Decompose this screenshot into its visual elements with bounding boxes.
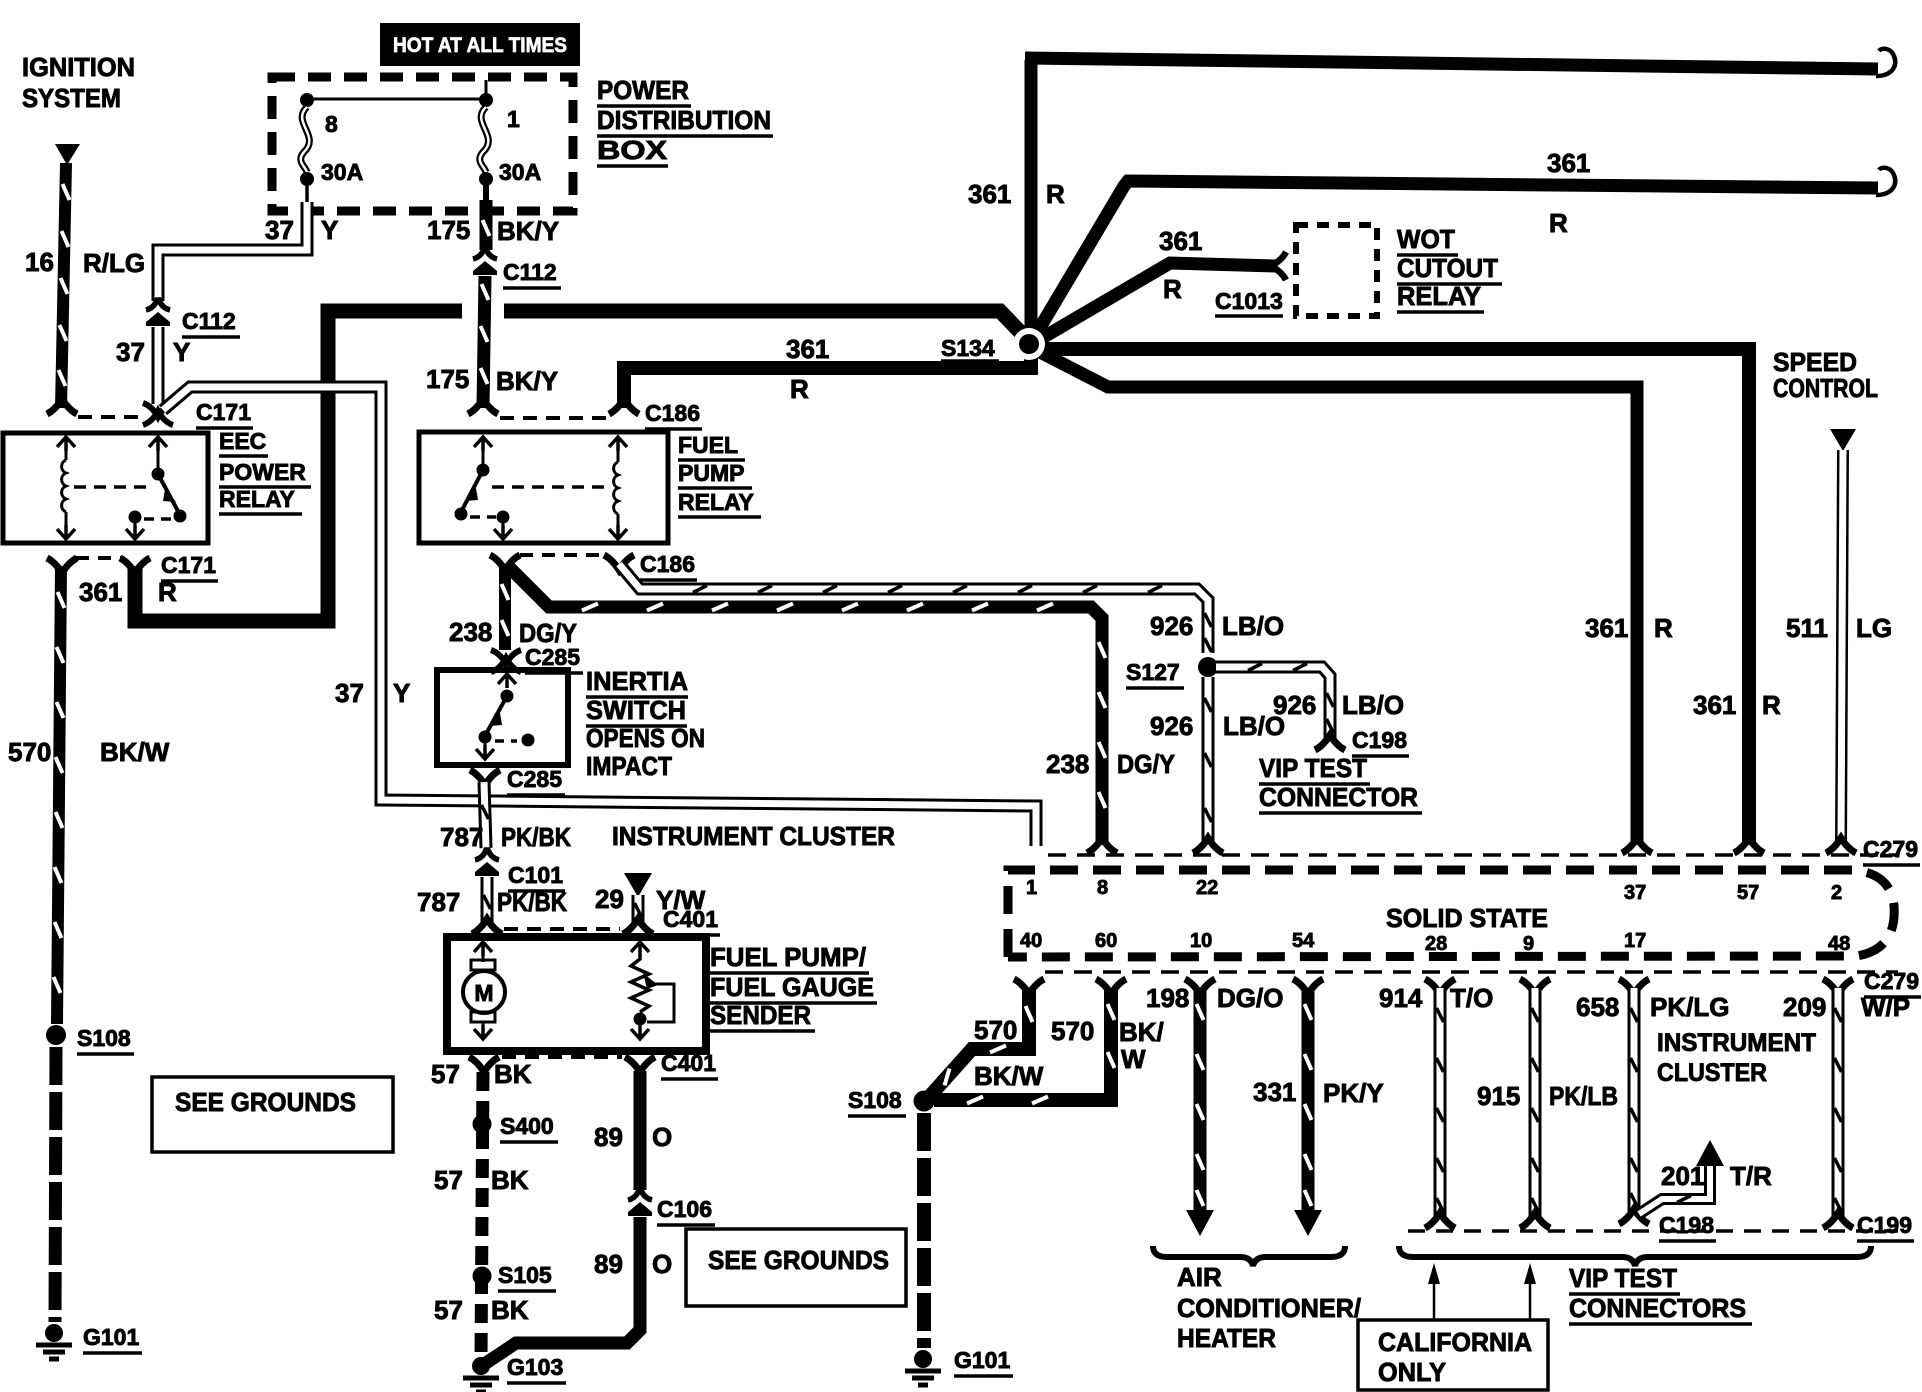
svg-text:361: 361 [1547, 148, 1590, 178]
wire 57 BK dashed to G103 [481, 1072, 483, 1358]
fuel pump / fuel gauge sender box [447, 937, 706, 1051]
svg-text:1: 1 [1026, 877, 1037, 899]
fuel pump relay switch [455, 450, 510, 529]
wire 915 PK/LB from pin 9 (hatched) [1520, 979, 1550, 1228]
label INSTRUMENT CLUSTER (bottom right) [1657, 1029, 1816, 1087]
svg-text:CLUSTER: CLUSTER [1657, 1059, 1767, 1087]
continuation hook of wire B [1876, 168, 1895, 195]
svg-text:238: 238 [449, 617, 492, 647]
connector C285 below inertia switch [470, 770, 500, 785]
svg-text:C1013: C1013 [1215, 288, 1283, 314]
wire 238 DG/Y from C186 to inertia switch (striped) [502, 564, 509, 650]
svg-text:FUEL PUMP/: FUEL PUMP/ [710, 942, 866, 972]
svg-text:RELAY: RELAY [219, 486, 295, 512]
svg-text:R: R [1163, 274, 1182, 304]
label FUEL PUMP/ FUEL GAUGE SENDER [710, 942, 877, 1031]
connector C401 bottom left flare [469, 1057, 499, 1072]
wire 209 W/P from pin 48 (hatched) [1823, 979, 1853, 1228]
SEC-A [22, 52, 146, 417]
svg-text:DG/Y: DG/Y [1117, 749, 1175, 779]
svg-text:FUEL: FUEL [678, 432, 738, 458]
svg-text:HEATER: HEATER [1177, 1323, 1276, 1353]
label INERTIA SWITCH OPENS ON IMPACT [586, 666, 705, 781]
svg-text:57: 57 [431, 1059, 460, 1089]
wire 238 DG/Y from C186 to cluster pin 8 (striped) [508, 566, 1106, 845]
svg-text:BK: BK [491, 1295, 529, 1325]
connector C401 bottom right flare [625, 1057, 655, 1072]
splice S105 [473, 1267, 492, 1286]
svg-text:S134: S134 [941, 335, 995, 361]
wire 361 R run B with diagonal from S134 [1035, 181, 1878, 336]
wire 570 BK/W (striped) from C171 to S108 [54, 566, 65, 1024]
wire 29 Y/W (hatched) [635, 895, 642, 924]
svg-text:R: R [1046, 179, 1065, 209]
SEE GROUNDS box (left) [152, 1077, 393, 1152]
svg-text:C401: C401 [661, 1050, 716, 1076]
connector row C279 top (dashed) [1048, 853, 1898, 857]
svg-text:C171: C171 [161, 552, 216, 578]
label WOT CUTOUT RELAY [1397, 224, 1502, 312]
svg-text:175: 175 [427, 215, 470, 245]
svg-text:926: 926 [1150, 711, 1193, 741]
SEC-L [1146, 979, 1914, 1390]
svg-text:201: 201 [1661, 1161, 1704, 1191]
pin 57 connector flare [1734, 838, 1764, 853]
svg-text:787: 787 [417, 887, 460, 917]
svg-text:915: 915 [1477, 1081, 1520, 1111]
EEC power relay box [3, 433, 208, 543]
pin 40 connector flare [1014, 979, 1044, 994]
svg-text:FUEL GAUGE: FUEL GAUGE [710, 972, 874, 1002]
svg-text:C112: C112 [503, 259, 557, 285]
svg-text:C279: C279 [1863, 836, 1918, 862]
svg-text:361: 361 [968, 179, 1011, 209]
label POWER DISTRIBUTION BOX [597, 75, 773, 166]
svg-text:9: 9 [1523, 933, 1534, 955]
SEC-D [3, 428, 311, 607]
power distribution box (dashed) [272, 77, 573, 211]
dashed connector line C186 top [500, 416, 606, 420]
svg-text:T/R: T/R [1730, 1161, 1772, 1191]
svg-text:DISTRIBUTION: DISTRIBUTION [597, 105, 771, 135]
wire 570 BK/W from S108 to pin 40 (striped) [929, 988, 1033, 1097]
EEC relay coil bottom pin [57, 525, 75, 539]
svg-text:C171: C171 [196, 399, 251, 425]
wire 175 BK/Y from C112 to C186 (striped) [481, 276, 489, 408]
svg-text:2: 2 [1831, 882, 1842, 904]
svg-text:AIR: AIR [1177, 1262, 1222, 1292]
wire 926 LB/O from C186 to S127 (hatched) [619, 564, 1212, 653]
SEE GROUNDS box (right) [686, 1229, 906, 1306]
svg-text:PK/BK: PK/BK [501, 822, 571, 852]
wire 201 T/R branch (hatched) [1639, 1140, 1724, 1214]
wire 331 PK/Y from pin 54 (striped) [1293, 979, 1323, 1236]
svg-text:POWER: POWER [219, 459, 306, 485]
wire 926 LB/O from S127 to pin 22 (hatched) [1205, 677, 1212, 845]
wire 89 O from C401 to C106 [634, 1071, 647, 1190]
svg-text:LB/O: LB/O [1342, 690, 1404, 720]
fuse 8 (30A) [300, 93, 314, 202]
wire 511 LG (hollow) [1841, 450, 1843, 845]
svg-text:16: 16 [25, 247, 54, 277]
connector C401 top left flare [472, 919, 502, 934]
svg-text:8: 8 [325, 111, 338, 137]
wire 361 R riser to top [1025, 60, 1038, 330]
svg-text:570: 570 [974, 1015, 1017, 1045]
svg-text:R: R [1654, 613, 1673, 643]
svg-text:C198: C198 [1352, 727, 1407, 753]
HOT AT ALL TIMES banner [380, 23, 580, 66]
svg-text:S108: S108 [77, 1025, 131, 1051]
wire 175 BK/Y from fuse 1 to C112 (striped) [483, 200, 490, 250]
svg-text:57: 57 [434, 1165, 463, 1195]
wire 787 PK/BK from C101 to C401 (hatched) [484, 877, 491, 924]
svg-text:G103: G103 [507, 1354, 563, 1380]
svg-text:CUTOUT: CUTOUT [1397, 253, 1498, 283]
svg-text:R/LG: R/LG [83, 248, 145, 278]
label EEC POWER RELAY [219, 428, 311, 514]
arrow feed 29 Y/W [624, 873, 652, 897]
svg-text:89: 89 [594, 1122, 623, 1152]
wire BK dashed from S108 to G101 (right) [917, 1113, 931, 1348]
svg-text:CONDITIONER/: CONDITIONER/ [1177, 1293, 1361, 1323]
svg-text:Y: Y [393, 678, 410, 708]
svg-text:RELAY: RELAY [678, 489, 754, 515]
wire 361 R top run A [1025, 58, 1878, 69]
SEC-E [8, 566, 393, 1359]
connector C171 below EEC box left [47, 558, 77, 573]
svg-text:C199: C199 [1857, 1212, 1912, 1238]
svg-text:O: O [652, 1122, 672, 1152]
svg-text:WOT: WOT [1397, 224, 1455, 254]
svg-text:C198: C198 [1659, 1212, 1714, 1238]
svg-text:361: 361 [1585, 613, 1628, 643]
svg-text:209: 209 [1783, 992, 1826, 1022]
svg-text:S108: S108 [848, 1087, 902, 1113]
svg-text:37: 37 [116, 337, 145, 367]
fuel pump relay coil-switch dashed link [492, 485, 608, 489]
connector C1013 flare [1271, 252, 1286, 280]
svg-text:926: 926 [1150, 611, 1193, 641]
connector C171 below EEC box right [120, 558, 150, 573]
fuel pump relay switch top pin [474, 437, 492, 451]
pin 60 connector flare [1096, 979, 1126, 994]
svg-text:89: 89 [594, 1249, 623, 1279]
svg-text:BK: BK [491, 1165, 529, 1195]
SEC-I [619, 564, 1422, 853]
connector C285 junction above inertia switch [491, 650, 521, 672]
svg-text:SYSTEM: SYSTEM [22, 83, 121, 113]
pin 2 connector flare [1826, 838, 1856, 853]
EEC relay coil [62, 450, 66, 529]
svg-text:361: 361 [79, 577, 122, 607]
wire link between fuses [307, 98, 486, 101]
connector C101 [475, 850, 499, 876]
svg-text:INSTRUMENT: INSTRUMENT [1657, 1029, 1816, 1057]
connector C186 below relay left [490, 555, 520, 570]
svg-text:914: 914 [1379, 983, 1423, 1013]
connector flare C186 coil feed [609, 399, 639, 414]
svg-text:O: O [652, 1249, 672, 1279]
connector C112 (37 Y) [146, 300, 170, 326]
svg-text:SOLID STATE: SOLID STATE [1386, 903, 1548, 933]
svg-text:DG/O: DG/O [1217, 983, 1283, 1013]
wire 658 PK/LG from pin 17 (hatched) [1619, 979, 1649, 1224]
svg-text:G101: G101 [83, 1324, 139, 1350]
wire 89 O from C106 to G103 [486, 1217, 640, 1363]
svg-text:R: R [1549, 208, 1568, 238]
svg-text:30A: 30A [499, 159, 541, 185]
svg-text:PK/LG: PK/LG [1650, 992, 1729, 1022]
svg-text:28: 28 [1425, 933, 1447, 955]
brace VIP test connectors [1399, 1246, 1871, 1266]
svg-text:S105: S105 [498, 1262, 552, 1288]
brace air conditioner/heater [1153, 1246, 1345, 1266]
fuel gauge sender [631, 942, 674, 1039]
SEC-J [431, 873, 1164, 1392]
svg-text:R: R [790, 374, 809, 404]
svg-text:C279: C279 [1864, 968, 1919, 994]
svg-text:SENDER: SENDER [710, 1000, 811, 1030]
arrow feed speed control 511 LG [1830, 429, 1856, 451]
svg-text:POWER: POWER [597, 75, 689, 105]
crossing gap where 175 BK/Y passes wire 361 R [462, 301, 504, 321]
svg-text:Y: Y [321, 215, 338, 245]
svg-text:SEE GROUNDS: SEE GROUNDS [175, 1087, 356, 1117]
svg-text:BK/Y: BK/Y [497, 216, 559, 246]
svg-text:C106: C106 [657, 1196, 712, 1222]
svg-text:PUMP: PUMP [678, 460, 744, 486]
wire 914 T/O from pin 28 (hatched) [1425, 979, 1455, 1228]
svg-text:361: 361 [1159, 226, 1202, 256]
dashed connector line C186 bottom [520, 553, 604, 557]
svg-text:658: 658 [1576, 992, 1619, 1022]
fuel pump relay switch bottom pin [494, 525, 512, 539]
pin 37 connector flare [1622, 838, 1652, 853]
svg-text:C186: C186 [640, 551, 695, 577]
svg-text:C112: C112 [182, 308, 236, 334]
svg-text:R: R [1762, 690, 1781, 720]
wire 787 PK/BK from C285 to C101 (hatched) [482, 782, 489, 848]
svg-text:17: 17 [1624, 930, 1646, 952]
ground G101 (right) [905, 1350, 941, 1385]
svg-text:RELAY: RELAY [1397, 281, 1481, 311]
wire 361 R from S134 to fuel pump relay coil [624, 350, 1031, 408]
svg-text:1: 1 [507, 106, 520, 132]
wire 37 Y from fuse 8 to C112 [158, 202, 307, 301]
continuation hook of wire A [1876, 49, 1895, 76]
connector C112 (175 BK/Y) [473, 249, 497, 275]
arrow from ignition system [55, 144, 80, 165]
svg-text:BK: BK [494, 1059, 532, 1089]
splice S400 [473, 1115, 492, 1134]
svg-text:VIP TEST: VIP TEST [1259, 753, 1367, 783]
svg-text:LB/O: LB/O [1222, 611, 1284, 641]
connector row VIP (dashed) [1408, 1229, 1898, 1233]
svg-text:CONNECTOR: CONNECTOR [1259, 782, 1418, 812]
svg-text:57: 57 [434, 1295, 463, 1325]
label AIR CONDITIONER/ HEATER [1177, 1262, 1361, 1353]
wire 16 R/LG (striped) [59, 163, 70, 408]
svg-text:OPENS ON: OPENS ON [586, 723, 705, 753]
svg-text:Y: Y [173, 337, 190, 367]
EEC relay switch [129, 450, 187, 529]
svg-text:CONTROL: CONTROL [1773, 373, 1878, 403]
svg-text:511: 511 [1786, 613, 1828, 643]
svg-text:BK/Y: BK/Y [496, 366, 558, 396]
fuel pump relay box [419, 432, 668, 543]
svg-text:331: 331 [1253, 1077, 1296, 1107]
wire 37 Y from C112 to C171 [152, 327, 165, 404]
wire 361 R from S134 to pin 37 [1036, 350, 1637, 845]
SEC-G [419, 200, 761, 580]
inertia switch box [437, 670, 568, 765]
svg-text:C101: C101 [508, 862, 563, 888]
svg-text:C186: C186 [645, 400, 700, 426]
inertia switch internals [476, 674, 535, 759]
svg-text:IGNITION: IGNITION [22, 52, 135, 82]
svg-text:S127: S127 [1126, 659, 1180, 685]
solid state module box (dashed) [1008, 870, 1894, 957]
svg-text:W: W [1121, 1044, 1146, 1074]
fuel pump relay coil top pin [609, 437, 627, 451]
connector C106 [628, 1190, 652, 1216]
svg-text:30A: 30A [321, 159, 363, 185]
svg-text:198: 198 [1146, 983, 1189, 1013]
dashed connector line C401 top [504, 927, 620, 931]
svg-text:361: 361 [786, 334, 829, 364]
svg-text:48: 48 [1828, 933, 1850, 955]
svg-text:37: 37 [265, 215, 294, 245]
svg-text:10: 10 [1190, 930, 1212, 952]
connector C401 top right flare [623, 919, 653, 934]
svg-text:361: 361 [1693, 690, 1736, 720]
svg-text:LG: LG [1856, 613, 1892, 643]
svg-text:37: 37 [1624, 882, 1646, 904]
svg-text:VIP TEST: VIP TEST [1569, 1263, 1677, 1293]
svg-text:SWITCH: SWITCH [586, 695, 686, 725]
svg-text:40: 40 [1020, 930, 1042, 952]
svg-text:IMPACT: IMPACT [586, 751, 672, 781]
SEC-F [135, 49, 1895, 853]
wire 37 Y long run to instrument cluster pin 1 [163, 387, 1036, 846]
svg-text:PK/BK: PK/BK [497, 887, 567, 917]
connector row C279 bottom (dashed) [1045, 970, 1898, 974]
WOT cutout relay box (dashed) [1296, 225, 1377, 316]
dashed connector line C171 top [78, 415, 146, 419]
svg-text:8: 8 [1097, 877, 1108, 899]
svg-text:60: 60 [1095, 930, 1117, 952]
svg-text:W/P: W/P [1861, 992, 1910, 1022]
wire 361 R from EEC relay to splice S134 [135, 311, 1025, 621]
svg-text:BK/: BK/ [1119, 1017, 1164, 1047]
fuel pump relay coil bottom pin [609, 525, 627, 539]
svg-text:926: 926 [1273, 690, 1316, 720]
svg-text:INSTRUMENT CLUSTER: INSTRUMENT CLUSTER [612, 821, 895, 851]
svg-text:54: 54 [1292, 930, 1315, 952]
svg-text:ONLY: ONLY [1378, 1357, 1446, 1387]
splice S127 [1198, 657, 1218, 677]
connector flare C186 left [468, 399, 498, 414]
splice S134 [1013, 328, 1045, 360]
EEC relay coil-switch dashed link [74, 485, 148, 489]
svg-text:INERTIA: INERTIA [586, 666, 688, 696]
svg-text:C401: C401 [663, 906, 718, 932]
svg-text:CONNECTORS: CONNECTORS [1569, 1293, 1746, 1323]
california arrow 2 [1524, 1263, 1536, 1320]
splice S108 (right) [914, 1091, 935, 1112]
ground G101 (left) [36, 1324, 72, 1359]
svg-text:175: 175 [426, 364, 469, 394]
EEC relay switch bottom pin [126, 525, 144, 539]
pin 22 connector flare [1193, 838, 1223, 853]
dashed connector line C171 bottom [76, 556, 122, 560]
svg-text:T/O: T/O [1450, 983, 1493, 1013]
label FUEL PUMP RELAY [678, 432, 761, 517]
EEC relay coil top pin [57, 437, 75, 451]
ground G103 [463, 1357, 499, 1392]
california arrow 1 [1428, 1263, 1440, 1320]
label VIP TEST CONNECTORS [1569, 1263, 1752, 1324]
connector C186 below relay right [604, 555, 634, 570]
pin 8 connector flare [1087, 838, 1117, 853]
SEC-B [272, 23, 773, 211]
california only box [1358, 1320, 1548, 1390]
svg-text:S400: S400 [500, 1113, 554, 1139]
svg-text:G101: G101 [954, 1347, 1010, 1373]
svg-text:C285: C285 [525, 644, 580, 670]
svg-text:37: 37 [335, 678, 364, 708]
wire 198 DG/O from pin 10 (striped) [1185, 979, 1215, 1236]
SEC-K [1008, 429, 1921, 1022]
svg-text:238: 238 [1046, 749, 1089, 779]
stub from box top to fuse 1 [485, 80, 488, 99]
fuel pump motor [463, 942, 505, 1039]
wire 570 BK/W from S108 to pin 60 (striped) [934, 988, 1115, 1104]
svg-text:R: R [158, 577, 177, 607]
connector C171 junction [143, 403, 173, 425]
svg-text:PK/LB: PK/LB [1549, 1081, 1618, 1111]
svg-text:SEE GROUNDS: SEE GROUNDS [708, 1245, 889, 1275]
svg-text:787: 787 [440, 822, 483, 852]
SEC-C [116, 202, 1036, 846]
connector flare at ignition wire end [47, 399, 77, 414]
wire 926 LB/O branch from S127 to C198 (hatched) [1216, 664, 1334, 739]
wire 361 R from S134 to speed control / pin 57 [1040, 349, 1749, 845]
svg-text:C285: C285 [507, 766, 562, 792]
svg-text:570: 570 [8, 737, 51, 767]
EEC relay switch top pin [149, 437, 167, 451]
svg-text:M: M [474, 980, 493, 1006]
svg-text:BK/W: BK/W [974, 1061, 1044, 1091]
svg-text:PK/Y: PK/Y [1323, 1078, 1384, 1108]
splice S108 (left) [46, 1025, 66, 1045]
svg-text:EEC: EEC [219, 428, 266, 454]
fuse 1 (30A) [479, 93, 493, 201]
wire 361 R to WOT cutout relay [1037, 263, 1276, 341]
svg-text:29: 29 [595, 884, 624, 914]
wire BK dashed from S108 to G101 (left) [55, 1047, 56, 1322]
label VIP TEST CONNECTOR [1259, 753, 1422, 813]
fuel pump relay coil [614, 450, 618, 529]
SEC-H [417, 564, 1175, 924]
svg-text:BOX: BOX [597, 135, 668, 165]
connector C198 flare (VIP test) [1315, 735, 1345, 750]
dashed connector line C401 bottom [502, 1055, 622, 1059]
svg-text:22: 22 [1196, 877, 1218, 899]
svg-text:BK/W: BK/W [100, 737, 170, 767]
svg-text:CALIFORNIA: CALIFORNIA [1378, 1327, 1532, 1357]
